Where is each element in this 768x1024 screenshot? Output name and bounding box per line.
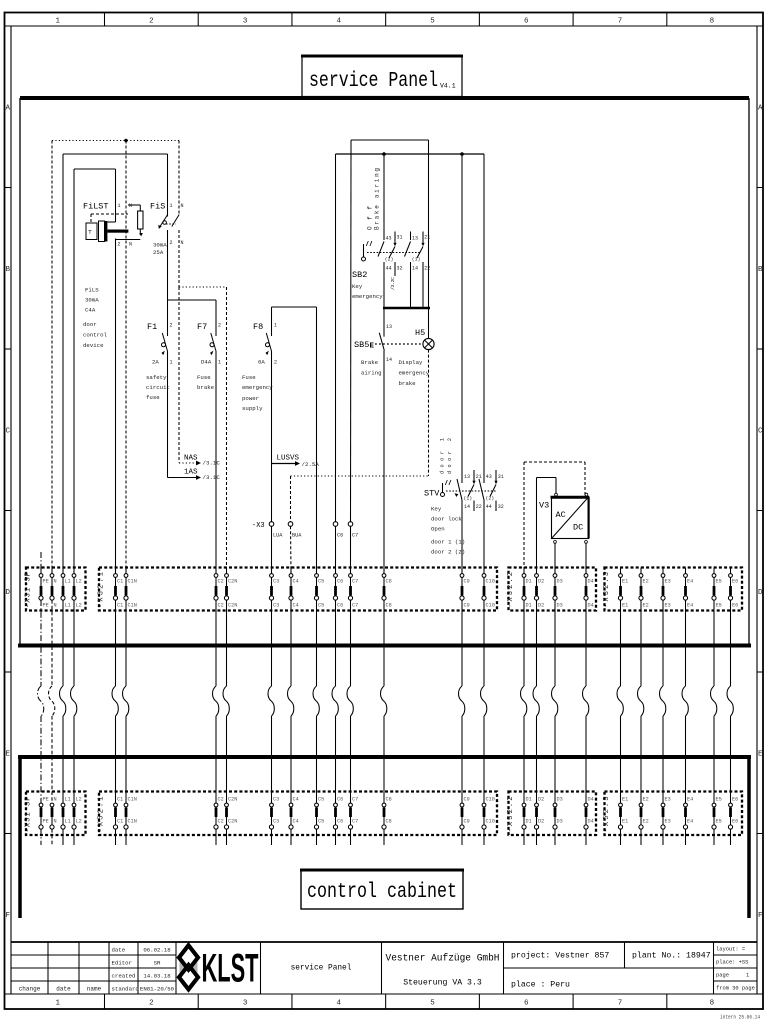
svg-text:C6: C6 [337, 603, 343, 609]
svg-text:E6: E6 [732, 797, 738, 803]
svg-text:6A: 6A [258, 359, 265, 366]
svg-text:E2: E2 [643, 603, 649, 609]
svg-text:E4: E4 [687, 797, 693, 803]
svg-text:C2: C2 [218, 603, 224, 609]
svg-text:D3: D3 [557, 603, 563, 609]
svg-text:N: N [54, 797, 57, 803]
svg-text:2: 2 [170, 323, 173, 329]
svg-text:PE: PE [43, 579, 49, 585]
svg-text:KLST: KLST [202, 947, 259, 991]
svg-text:Key: Key [352, 283, 363, 290]
svg-text:32: 32 [498, 504, 504, 510]
svg-text:Editor: Editor [112, 960, 132, 967]
svg-text:30mA: 30mA [153, 242, 167, 249]
svg-text:14: 14 [386, 357, 392, 363]
svg-text:C8: C8 [386, 797, 392, 803]
svg-text:emergency: emergency [242, 384, 273, 391]
svg-text:2: 2 [118, 242, 121, 248]
svg-text:22: 22 [476, 504, 482, 510]
svg-text:C9: C9 [464, 819, 470, 825]
svg-text:C5: C5 [318, 579, 324, 585]
svg-text:2: 2 [170, 240, 173, 246]
svg-text:C2: C2 [218, 579, 224, 585]
svg-text:1: 1 [218, 360, 221, 366]
svg-text:E: E [370, 343, 375, 351]
svg-text:C6: C6 [337, 819, 343, 825]
svg-text:C6: C6 [337, 579, 343, 585]
svg-text:C7: C7 [352, 603, 358, 609]
svg-text:door lock: door lock [431, 516, 462, 523]
svg-text:emergency: emergency [399, 370, 430, 377]
svg-text:E6: E6 [732, 819, 738, 825]
svg-text:C9: C9 [464, 797, 470, 803]
svg-text:L1: L1 [65, 603, 71, 609]
svg-text:D4: D4 [588, 579, 594, 585]
svg-text:L2: L2 [76, 797, 82, 803]
svg-text:STV: STV [424, 489, 440, 499]
svg-text:C: C [758, 428, 763, 436]
svg-text:D2: D2 [538, 797, 544, 803]
svg-text:14.03.18: 14.03.18 [143, 973, 171, 980]
svg-text:(1): (1) [412, 257, 421, 263]
svg-text:NAS: NAS [184, 455, 198, 463]
svg-text:standard: standard [112, 986, 139, 993]
svg-text:06.02.18: 06.02.18 [143, 947, 171, 954]
svg-text:32: 32 [397, 266, 403, 272]
svg-text:E5: E5 [716, 603, 722, 609]
svg-text:C2: C2 [218, 819, 224, 825]
svg-text:L1: L1 [65, 819, 71, 825]
svg-text:L2: L2 [76, 603, 82, 609]
svg-text:E1: E1 [622, 797, 628, 803]
svg-text:D4: D4 [588, 797, 594, 803]
svg-text:3: 3 [243, 1000, 248, 1008]
svg-text:FiS: FiS [150, 202, 165, 212]
svg-text:(1): (1) [464, 496, 473, 502]
svg-text:Vestner Aufzüge GmbH: Vestner Aufzüge GmbH [386, 953, 500, 965]
svg-text:43: 43 [386, 236, 392, 242]
svg-text:SR: SR [154, 960, 161, 967]
svg-text:door 2 (2): door 2 (2) [431, 549, 465, 556]
svg-text:E6: E6 [732, 579, 738, 585]
svg-text:E3: E3 [665, 819, 671, 825]
svg-text:1: 1 [170, 360, 173, 366]
svg-text:44: 44 [486, 504, 492, 510]
svg-text:C10: C10 [486, 579, 495, 585]
svg-text:D1: D1 [526, 797, 532, 803]
svg-text:Brake: Brake [361, 359, 379, 366]
svg-text:44: 44 [386, 266, 392, 272]
svg-text:F8: F8 [253, 322, 263, 332]
svg-text:31: 31 [397, 235, 403, 241]
svg-text:C3: C3 [273, 819, 279, 825]
svg-text:A: A [758, 105, 763, 113]
svg-text:E5: E5 [716, 819, 722, 825]
svg-text:/3.2C: /3.2C [390, 277, 396, 290]
svg-text:2: 2 [149, 18, 154, 26]
svg-text:E2: E2 [643, 797, 649, 803]
svg-text:C4: C4 [293, 819, 299, 825]
svg-text:1AS: 1AS [184, 469, 198, 477]
svg-text:13: 13 [412, 236, 418, 242]
svg-text:13: 13 [386, 324, 392, 330]
svg-text:D4: D4 [588, 819, 594, 825]
svg-text:E1: E1 [622, 819, 628, 825]
svg-text:E5: E5 [716, 797, 722, 803]
svg-text:13: 13 [464, 474, 470, 480]
svg-text:B: B [5, 266, 10, 274]
svg-text:/3.1C: /3.1C [203, 474, 221, 481]
svg-text:E: E [758, 751, 763, 759]
svg-text:LUSVS: LUSVS [277, 455, 300, 463]
svg-text:4: 4 [337, 18, 342, 26]
svg-text:place : Peru: place : Peru [511, 980, 570, 990]
svg-text:safety: safety [146, 374, 167, 381]
svg-text:C9: C9 [464, 579, 470, 585]
svg-text:C2: C2 [218, 797, 224, 803]
svg-text:created: created [112, 973, 136, 980]
svg-text:C3: C3 [273, 797, 279, 803]
svg-text:C5: C5 [318, 603, 324, 609]
svg-text:/2.5A: /2.5A [302, 461, 320, 468]
svg-text:D1: D1 [526, 603, 532, 609]
svg-text:control: control [83, 332, 107, 339]
svg-text:brake: brake [399, 380, 417, 387]
svg-text:A: A [5, 105, 10, 113]
svg-text:E: E [5, 751, 10, 759]
svg-text:C1N: C1N [128, 579, 137, 585]
svg-text:N: N [54, 603, 57, 609]
svg-text:43: 43 [486, 474, 492, 480]
svg-text:1: 1 [55, 18, 60, 26]
svg-text:C2N: C2N [228, 797, 237, 803]
svg-text:circuit: circuit [146, 384, 170, 391]
svg-text:1: 1 [118, 203, 121, 209]
svg-text:C2N: C2N [228, 603, 237, 609]
svg-text:door 1 (1): door 1 (1) [431, 539, 465, 546]
svg-text:6: 6 [524, 1000, 529, 1008]
svg-text:C1: C1 [117, 579, 123, 585]
svg-text:5: 5 [430, 1000, 435, 1008]
svg-text:from 30 page: from 30 page [716, 986, 755, 992]
svg-text:Steuerung VA 3.3: Steuerung VA 3.3 [403, 979, 482, 988]
svg-text:C6: C6 [337, 797, 343, 803]
svg-text:2A: 2A [152, 359, 159, 366]
svg-text:date: date [56, 986, 71, 993]
svg-text:name: name [87, 986, 102, 993]
svg-text:1: 1 [55, 1000, 60, 1008]
svg-text:C2N: C2N [228, 819, 237, 825]
svg-text:2: 2 [218, 323, 221, 329]
svg-text:DC: DC [573, 523, 583, 533]
svg-text:3: 3 [243, 18, 248, 26]
svg-text:PE: PE [43, 603, 49, 609]
svg-text:C: C [5, 428, 10, 436]
svg-text:fuse: fuse [146, 394, 160, 401]
svg-text:E5: E5 [716, 579, 722, 585]
svg-text:Open: Open [431, 526, 445, 533]
svg-text:project: Vestner 857: project: Vestner 857 [511, 951, 609, 961]
svg-text:C1N: C1N [128, 819, 137, 825]
svg-text:F1: F1 [147, 322, 157, 332]
svg-text:N: N [129, 203, 132, 209]
svg-text:C7: C7 [352, 533, 358, 539]
svg-text:PE: PE [43, 797, 49, 803]
svg-text:control cabinet: control cabinet [307, 881, 457, 904]
svg-text:31: 31 [498, 474, 504, 480]
svg-text:brake: brake [197, 384, 215, 391]
svg-text:date: date [112, 947, 126, 954]
svg-text:service Panel: service Panel [309, 70, 438, 93]
svg-text:BUA: BUA [292, 533, 302, 539]
svg-text:C10: C10 [486, 819, 495, 825]
svg-text:E6: E6 [732, 603, 738, 609]
svg-text:D2: D2 [538, 579, 544, 585]
svg-text:L1: L1 [65, 579, 71, 585]
svg-text:FiLS: FiLS [85, 287, 99, 294]
svg-text:plant No.: 18947: plant No.: 18947 [632, 951, 711, 961]
svg-text:C10: C10 [486, 797, 495, 803]
svg-text:4: 4 [337, 1000, 342, 1008]
svg-text:22: 22 [424, 266, 430, 272]
svg-text:D1: D1 [526, 819, 532, 825]
svg-text:B: B [758, 266, 763, 274]
svg-text:AC: AC [556, 510, 566, 520]
svg-text:power: power [242, 395, 259, 402]
svg-text:C1N: C1N [128, 797, 137, 803]
svg-text:service Panel: service Panel [291, 965, 352, 973]
svg-text:C9: C9 [464, 603, 470, 609]
svg-text:C4A: C4A [85, 307, 96, 314]
svg-text:F7: F7 [197, 322, 207, 332]
svg-text:25A: 25A [153, 249, 164, 256]
svg-text:LUA: LUA [273, 533, 283, 539]
svg-text:(2): (2) [385, 257, 394, 263]
svg-text:C4: C4 [293, 603, 299, 609]
svg-text:C8: C8 [386, 603, 392, 609]
svg-text:6: 6 [524, 18, 529, 26]
svg-text:C4: C4 [293, 579, 299, 585]
svg-text:EN81-20/50: EN81-20/50 [140, 986, 175, 993]
svg-text:E4: E4 [687, 603, 693, 609]
svg-text:2: 2 [274, 360, 277, 366]
svg-text:/3.1C: /3.1C [203, 460, 221, 467]
svg-text:30mA: 30mA [85, 297, 99, 304]
svg-text:page: page [716, 973, 729, 979]
svg-text:7: 7 [618, 18, 623, 26]
svg-text:N: N [54, 579, 57, 585]
svg-text:C7: C7 [352, 579, 358, 585]
svg-text:2: 2 [149, 1000, 154, 1008]
svg-text:N: N [181, 240, 184, 246]
svg-text:Fuse: Fuse [242, 374, 256, 381]
svg-text:airing: airing [361, 370, 381, 377]
svg-text:5: 5 [430, 18, 435, 26]
svg-text:SB5: SB5 [354, 340, 369, 350]
svg-text:D2: D2 [538, 819, 544, 825]
svg-text:-X3: -X3 [252, 522, 265, 530]
svg-text:N: N [181, 203, 184, 209]
svg-text:H5: H5 [415, 328, 425, 338]
svg-text:change: change [19, 986, 41, 993]
svg-text:intern 25.06.14: intern 25.06.14 [720, 1015, 760, 1021]
svg-text:V4.1: V4.1 [440, 83, 456, 90]
svg-text:E1: E1 [622, 579, 628, 585]
svg-text:Fuse: Fuse [197, 374, 211, 381]
svg-text:1: 1 [274, 323, 277, 329]
svg-text:-X31 SP: -X31 SP [25, 572, 33, 608]
svg-text:-X51 SP: -X51 SP [25, 797, 33, 833]
svg-text:D3: D3 [557, 797, 563, 803]
svg-text:1: 1 [170, 203, 173, 209]
svg-text:C7: C7 [352, 819, 358, 825]
svg-text:1: 1 [746, 973, 749, 979]
svg-text:14: 14 [412, 266, 418, 272]
svg-text:C2N: C2N [228, 579, 237, 585]
svg-text:14: 14 [464, 504, 470, 510]
svg-text:F: F [758, 912, 763, 920]
svg-text:(2): (2) [486, 496, 495, 502]
svg-text:Display: Display [399, 359, 423, 366]
svg-text:F: F [5, 912, 10, 920]
svg-text:C1N: C1N [128, 603, 137, 609]
svg-text:C5: C5 [318, 819, 324, 825]
svg-text:8: 8 [710, 1000, 715, 1008]
svg-text:8: 8 [710, 18, 715, 26]
svg-text:C3: C3 [273, 603, 279, 609]
svg-text:21: 21 [476, 474, 482, 480]
svg-text:C7: C7 [352, 797, 358, 803]
svg-text:D4A: D4A [201, 359, 212, 366]
svg-text:FiLST: FiLST [83, 202, 109, 212]
svg-text:C1: C1 [117, 819, 123, 825]
svg-text:device: device [83, 342, 104, 349]
svg-text:D3: D3 [557, 579, 563, 585]
svg-text:SB2: SB2 [352, 270, 367, 280]
svg-text:C6: C6 [337, 533, 343, 539]
svg-text:C5: C5 [318, 797, 324, 803]
svg-text:door: door [83, 321, 97, 328]
svg-text:N: N [129, 242, 132, 248]
svg-text:C4: C4 [293, 797, 299, 803]
svg-text:supply: supply [242, 405, 263, 412]
svg-text:⊤: ⊤ [88, 229, 92, 236]
svg-text:Key: Key [431, 506, 442, 513]
svg-text:E4: E4 [687, 579, 693, 585]
svg-text:C10: C10 [486, 603, 495, 609]
svg-text:L2: L2 [76, 579, 82, 585]
svg-text:21: 21 [424, 235, 430, 241]
svg-text:C8: C8 [386, 819, 392, 825]
svg-text:E3: E3 [665, 797, 671, 803]
svg-text:C1: C1 [117, 797, 123, 803]
svg-text:emergency: emergency [352, 293, 383, 300]
svg-text:E3: E3 [665, 603, 671, 609]
svg-text:C8: C8 [386, 579, 392, 585]
svg-text:N: N [54, 819, 57, 825]
svg-text:D: D [5, 589, 10, 597]
svg-text:D4: D4 [588, 603, 594, 609]
svg-text:L2: L2 [76, 819, 82, 825]
svg-text:L1: L1 [65, 797, 71, 803]
svg-text:C3: C3 [273, 579, 279, 585]
svg-text:E3: E3 [665, 579, 671, 585]
svg-text:E1: E1 [622, 603, 628, 609]
svg-text:C1: C1 [117, 603, 123, 609]
svg-text:D1: D1 [526, 579, 532, 585]
svg-text:E2: E2 [643, 579, 649, 585]
svg-text:7: 7 [618, 1000, 623, 1008]
svg-text:layout: =: layout: = [716, 947, 745, 953]
svg-text:D2: D2 [538, 603, 544, 609]
svg-text:D3: D3 [557, 819, 563, 825]
svg-text:D: D [758, 589, 763, 597]
svg-text:E4: E4 [687, 819, 693, 825]
svg-text:place: +SS: place: +SS [716, 960, 748, 966]
svg-text:PE: PE [43, 819, 49, 825]
svg-text:E2: E2 [643, 819, 649, 825]
svg-text:V3: V3 [539, 501, 549, 511]
